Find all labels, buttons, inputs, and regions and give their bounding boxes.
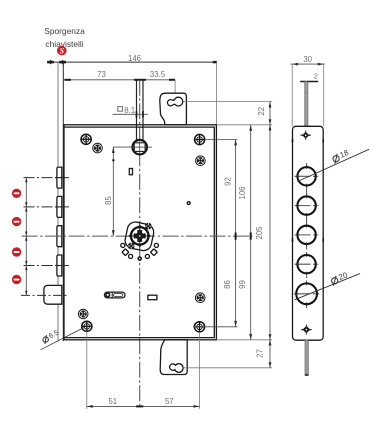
left bolt spacing dimension line bbox=[25, 178, 27, 296]
dim 22 / 205 / 27 vertical line C bbox=[255, 102, 271, 368]
plate edge notches bbox=[293, 139, 324, 242]
dim 30 bbox=[291, 55, 325, 127]
leader top-right screw to 92 dim bbox=[205, 139, 237, 141]
screw top-right dark bbox=[196, 156, 206, 166]
capsule slot bottom left interior bbox=[104, 292, 125, 298]
latch block bbox=[44, 285, 62, 304]
phi 6.5 leader bbox=[41, 328, 85, 350]
satellite ring far right bbox=[154, 243, 158, 247]
svg-text:22: 22 bbox=[257, 107, 266, 116]
svg-text:2: 2 bbox=[314, 72, 318, 81]
hole circle 3 d18 bbox=[295, 226, 319, 244]
screw top-right ringed bbox=[195, 134, 205, 144]
svg-text:73: 73 bbox=[97, 70, 106, 79]
extension 33.5 to tab bbox=[174, 80, 176, 93]
satellite dark dot bottom bbox=[137, 256, 142, 261]
case inner fold lines bbox=[65, 127, 215, 338]
extension tab hole to 22 dim bbox=[184, 101, 273, 103]
satellite diamond left bbox=[122, 249, 129, 256]
small slot below hub bbox=[129, 169, 132, 175]
bolt block 2 bbox=[57, 196, 62, 217]
svg-text:99: 99 bbox=[238, 280, 247, 289]
bottom diamond mark bbox=[301, 325, 311, 335]
dimension sporgenza / 146 top line bbox=[47, 60, 217, 64]
main horizontal center line bbox=[22, 235, 253, 237]
screw bottom-left dark bbox=[78, 309, 88, 319]
svg-text:146: 146 bbox=[128, 54, 141, 63]
phi 6.5 label bbox=[41, 328, 61, 344]
leader phi20 bbox=[295, 274, 361, 300]
red bolt icon 3 bbox=[12, 247, 21, 256]
svg-text:33.5: 33.5 bbox=[150, 70, 166, 79]
peanut hole in bottom tab bbox=[170, 364, 184, 373]
screw top-left dark bbox=[93, 143, 103, 153]
lock case outer rectangle bbox=[64, 125, 216, 340]
svg-text:S: S bbox=[60, 47, 65, 56]
circle crosshair ticks bbox=[296, 165, 318, 187]
peanut hole in top tab bbox=[168, 97, 183, 106]
svg-text:86: 86 bbox=[223, 280, 232, 289]
faceplate front view plate bbox=[293, 126, 324, 340]
svg-text:8.1: 8.1 bbox=[124, 106, 135, 115]
case bottom edge extension to dims bbox=[216, 339, 271, 341]
dim square 8.1 bbox=[113, 106, 149, 118]
bolt block 1 bbox=[57, 167, 62, 188]
leader phi18 bbox=[298, 149, 370, 181]
top rod bbox=[304, 82, 309, 127]
satellite ring right bbox=[145, 254, 149, 258]
screw bottom-right ringed bbox=[194, 322, 204, 332]
screw top-left ringed bbox=[81, 134, 91, 144]
dim line 73 / 33.5 bbox=[64, 79, 175, 81]
bottom rod bbox=[305, 340, 309, 376]
label phi18 bbox=[331, 148, 350, 164]
dim 85 vertical bbox=[104, 147, 133, 236]
bolt block 4 bbox=[57, 255, 62, 276]
svg-text:85: 85 bbox=[104, 196, 113, 205]
label Sporgenza chiavistelli bbox=[44, 26, 85, 49]
screw bottom-left ringed bbox=[82, 321, 92, 331]
bottom dim 51 / 57 bbox=[87, 332, 200, 409]
cylinder escutcheon outline bbox=[124, 221, 156, 253]
case top edge extension to dims bbox=[216, 124, 272, 126]
svg-text:106: 106 bbox=[238, 186, 247, 199]
svg-text:51: 51 bbox=[108, 397, 117, 406]
small ringed circle lower-left of cylinder bbox=[128, 243, 135, 250]
cylinder main circle bbox=[128, 225, 151, 248]
svg-text:Sporgenza: Sporgenza bbox=[44, 26, 85, 36]
bolt row center lines bbox=[24, 177, 70, 179]
faceplate edge-on lines bbox=[57, 63, 59, 342]
red bolt icon 1 bbox=[12, 189, 21, 198]
extension line right edge to 146 bbox=[216, 62, 218, 125]
svg-text:30: 30 bbox=[303, 55, 312, 64]
label phi20 bbox=[330, 270, 350, 286]
hole circle 5 d20 bbox=[294, 283, 319, 304]
vertical center line of holes bbox=[306, 163, 308, 308]
badge S bbox=[57, 46, 67, 56]
top diamond mark bbox=[301, 130, 311, 140]
bottom mounting tab bbox=[160, 340, 187, 375]
dim 2 rod bbox=[300, 72, 318, 82]
red bolt icon 4 bbox=[12, 275, 21, 284]
satellite ring left bbox=[129, 254, 133, 258]
hole circle 4 d18 bbox=[295, 255, 319, 273]
extension bottom hole to 27 dim bbox=[183, 367, 272, 369]
screw bottom-right dark bbox=[195, 293, 205, 303]
spindle shaft extension lines bbox=[136, 80, 138, 141]
svg-text:92: 92 bbox=[224, 177, 233, 186]
bolt block 3 bbox=[57, 226, 62, 247]
dim 92/86 vertical line A bbox=[223, 140, 237, 327]
red bolt icon 2 bbox=[12, 217, 21, 226]
satellite ring far left bbox=[121, 243, 125, 247]
small rect bottom interior bbox=[148, 295, 157, 300]
vertical center line through spindle and cylinder bbox=[139, 80, 141, 409]
satellite diamond right bbox=[151, 249, 158, 256]
svg-text:57: 57 bbox=[165, 397, 174, 406]
hole circle 1 d18 bbox=[295, 167, 319, 185]
svg-text:27: 27 bbox=[256, 349, 265, 358]
small ring hole center right bbox=[187, 201, 191, 205]
svg-text:205: 205 bbox=[255, 226, 264, 240]
hole circle 2 d18 bbox=[295, 196, 319, 214]
leader bottom-right screw to 86 dim bbox=[193, 326, 237, 328]
top mounting tab bbox=[160, 93, 187, 125]
spindle hub bbox=[128, 140, 152, 155]
small ringed circle top-right of cylinder bbox=[145, 223, 152, 230]
dim 106/99 vertical line B bbox=[238, 125, 252, 340]
